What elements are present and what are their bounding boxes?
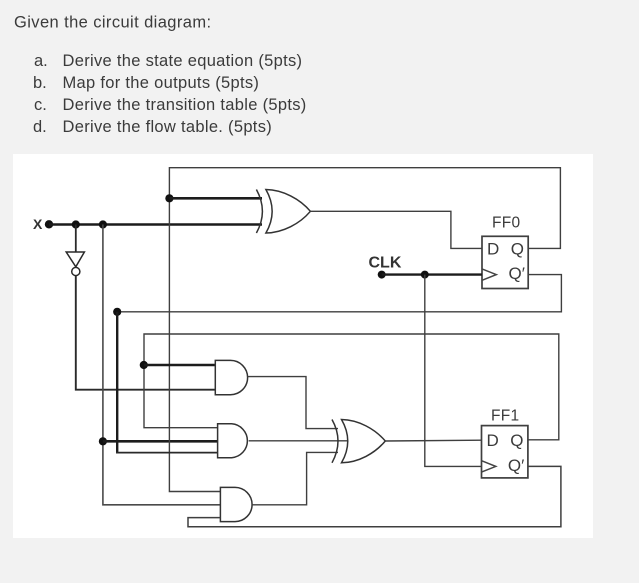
junction Q0 to XOR U2 top input — [165, 194, 173, 202]
wire AND G1 output to XOR U3 top input — [248, 377, 338, 429]
svg-text:Map for the outputs (5pts): Map for the outputs (5pts) — [63, 74, 260, 92]
AND gate G3 — [220, 487, 252, 521]
junction X to AND G2 middle input — [99, 437, 107, 445]
wire X vertical down to AND G2 / AND G3 — [103, 225, 220, 505]
wire X' from inverter down then right to AND G1 bottom input — [76, 276, 216, 390]
AND gate G1 — [215, 360, 247, 394]
junction Q1 to AND G1 top input — [140, 361, 148, 369]
wire net Q1' : FF1 Q' right, down, long left along bottom, jog up into AND G3 bottom input — [188, 466, 561, 526]
svg-text:Q′: Q′ — [509, 264, 525, 283]
wire Q1 to AND G1 top input — [144, 364, 216, 367]
inverter U1 (NOT gate, pointing down) — [66, 252, 84, 267]
svg-text:Q′: Q′ — [508, 456, 524, 475]
flip-flop FF1 box — [482, 426, 528, 478]
AND gate G2 — [218, 424, 248, 458]
wire X horizontal to XOR U2 input — [49, 223, 262, 226]
junction X down line — [99, 220, 107, 228]
svg-text:FF1: FF1 — [491, 408, 519, 425]
FF1 clock pin triangle — [482, 461, 496, 472]
wire net Q1 : FF1 Q up and left then down to AND G2 top input — [144, 334, 559, 440]
svg-text:Q: Q — [511, 240, 524, 259]
svg-text:d.: d. — [33, 118, 47, 136]
wire net Q0: FF0 Q output up over the top and down to AND G3 top input — [169, 168, 560, 492]
svg-text:c.: c. — [34, 96, 47, 114]
wire X dot to inverter U1 — [75, 225, 77, 252]
junction X to inverter — [72, 220, 80, 228]
node X terminal dot — [45, 220, 53, 228]
svg-text:CLK: CLK — [369, 254, 402, 271]
XOR gate U3 (bottom) — [332, 420, 338, 463]
svg-text:Q: Q — [510, 431, 523, 450]
wire net Q0' : FF0 Q' right, down, left to junction then down to AND G2 bottom input — [117, 275, 561, 312]
wire CLK to FF0 clock input — [382, 273, 482, 275]
svg-text:Given the circuit diagram:: Given the circuit diagram: — [14, 14, 211, 32]
wire AND G2 output to XOR U3 middle input — [249, 440, 348, 442]
flip-flop FF0 box — [482, 236, 528, 288]
wire Q0' to AND G2 bottom input — [116, 452, 218, 454]
svg-text:Derive the state equation (5pt: Derive the state equation (5pts) — [63, 52, 303, 70]
XOR gate U2 (top) — [256, 190, 262, 234]
svg-text:Derive the flow table. (5pts): Derive the flow table. (5pts) — [63, 118, 273, 136]
svg-text:FF0: FF0 — [492, 215, 521, 232]
white circuit panel — [13, 154, 593, 538]
svg-text:D: D — [487, 431, 499, 450]
junction Q0' corner — [113, 308, 121, 316]
wire X to AND G2 middle input — [103, 440, 218, 443]
wire XOR U2 output to FF0 D input — [310, 211, 482, 248]
wire Q0 to XOR U2 top input — [169, 197, 262, 200]
svg-text:b.: b. — [33, 74, 47, 92]
wire Q0' down — [116, 312, 118, 453]
svg-text:X: X — [33, 216, 43, 232]
CLK terminal dot — [378, 271, 386, 279]
wire AND G3 output right then up to XOR U3 bottom input — [252, 452, 338, 504]
FF0 clock pin triangle — [482, 269, 496, 280]
svg-text:a.: a. — [34, 52, 48, 70]
junction CLK — [421, 271, 429, 279]
svg-text:Derive the transition table (5: Derive the transition table (5pts) — [63, 96, 307, 114]
wire CLK down to FF1 clock input — [425, 275, 482, 467]
wire XOR U3 output to FF1 D input — [385, 439, 481, 442]
svg-text:D: D — [487, 240, 499, 259]
